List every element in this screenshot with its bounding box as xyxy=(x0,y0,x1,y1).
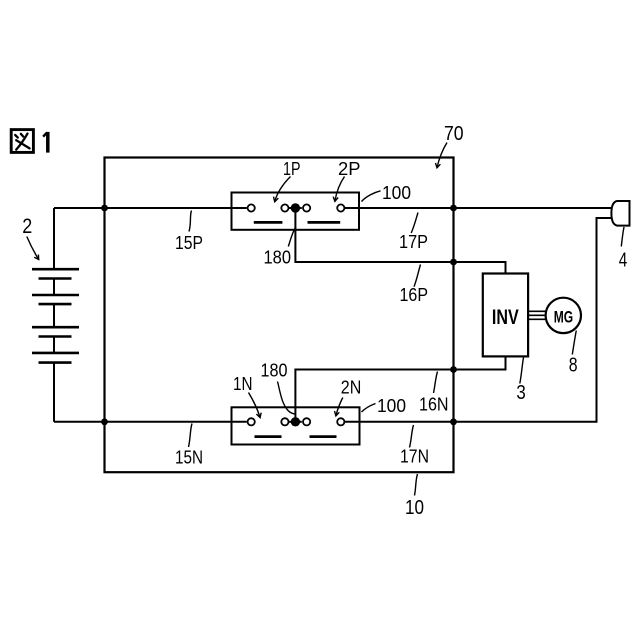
contact bar (top relay, left) xyxy=(254,221,283,224)
battery 2 xyxy=(32,208,79,422)
wire 180 (drop to bottom relay) and wire 16N to INV xyxy=(295,356,505,421)
label 100 (top relay) with leader xyxy=(362,183,412,203)
svg-text:100: 100 xyxy=(382,183,411,203)
label 180 (bottom) with leader xyxy=(261,361,295,414)
inverter U: INV box 3 xyxy=(483,274,528,357)
label 10 with leader xyxy=(405,474,424,519)
label 17N with leader xyxy=(400,425,429,467)
contact bar (top relay, right) xyxy=(308,221,341,224)
svg-text:180: 180 xyxy=(264,248,292,268)
svg-text:2: 2 xyxy=(22,214,32,238)
svg-text:100: 100 xyxy=(377,396,406,416)
label 4 with leader xyxy=(619,227,628,272)
junction node (bus, bottom rail) xyxy=(450,418,457,425)
svg-text:10: 10 xyxy=(405,497,424,519)
junction node (bus, wire 16P) xyxy=(450,259,457,266)
contact terminal 2P right xyxy=(337,204,344,211)
label 100 (bottom relay) with leader xyxy=(362,396,407,416)
motor-generator MG 8 xyxy=(546,298,581,333)
svg-text:16N: 16N xyxy=(419,395,449,415)
common node 180 (bottom relay center dot) xyxy=(291,417,300,426)
label 15P with leader xyxy=(175,211,203,254)
label 15N with leader xyxy=(175,424,203,468)
junction node (bus, top rail) xyxy=(450,205,457,212)
label 8 with leader xyxy=(569,331,578,377)
3-phase link lines INV to MG xyxy=(528,311,546,319)
wire 180 (drop from top relay) and wire 16P to INV xyxy=(295,210,505,274)
svg-text:MG: MG xyxy=(554,308,573,326)
junction node (left edge, top rail) xyxy=(101,205,108,212)
label 2N with arrow xyxy=(335,378,362,416)
label 16P with leader xyxy=(400,265,429,306)
contact terminal 2P left xyxy=(303,204,310,211)
svg-text:16P: 16P xyxy=(400,285,429,305)
svg-text:1P: 1P xyxy=(283,159,301,179)
wire 15P / 17P (top rail segments) xyxy=(54,207,613,209)
contact terminal 1P left xyxy=(248,204,255,211)
svg-text:17P: 17P xyxy=(399,232,428,252)
wire 15N / 17N (bottom rail, continues right and up to horn 4) xyxy=(54,218,613,422)
svg-text:15P: 15P xyxy=(175,233,203,253)
label 17P with leader xyxy=(399,213,428,253)
label 1P with arrow xyxy=(274,159,301,202)
contact terminal 1N right xyxy=(281,418,288,425)
label 2P with arrow xyxy=(333,159,360,201)
label 70 with arrow xyxy=(436,123,464,168)
svg-text:8: 8 xyxy=(569,355,578,377)
junction node (left edge, bottom rail) xyxy=(101,418,108,425)
svg-text:INV: INV xyxy=(492,306,519,329)
contact bar (bottom relay, left) xyxy=(255,435,282,438)
contact terminal 2N right xyxy=(337,418,344,425)
label 16N with leader xyxy=(419,372,449,415)
figure title 図1 xyxy=(11,130,48,153)
svg-text:2N: 2N xyxy=(341,378,362,398)
contact terminal 2N left xyxy=(303,418,310,425)
svg-text:2P: 2P xyxy=(338,159,361,179)
label 2 with arrow xyxy=(22,214,38,260)
svg-text:1N: 1N xyxy=(233,374,253,394)
relay 100 (top box) xyxy=(232,193,360,230)
enclosure box 70 (outer rectangle, right edge is DC bus) xyxy=(105,158,454,473)
junction node (bus, wire 16N) xyxy=(450,366,457,373)
contact terminal 1P right xyxy=(281,204,288,211)
common node 180 (top relay center dot) xyxy=(291,203,300,212)
svg-text:70: 70 xyxy=(444,123,464,145)
label 180 (top) with leader xyxy=(264,227,296,268)
auxiliary load horn 4 (D-shaped symbol) xyxy=(611,201,629,226)
svg-text:15N: 15N xyxy=(175,448,203,468)
svg-text:17N: 17N xyxy=(400,447,429,467)
label 3 with leader xyxy=(516,358,525,405)
label 1N with arrow xyxy=(233,374,261,418)
svg-text:4: 4 xyxy=(619,250,628,272)
contact bar (bottom relay, right) xyxy=(310,435,337,438)
relay 100 (bottom box) xyxy=(232,407,360,444)
contact terminal 1N left xyxy=(248,418,255,425)
svg-text:3: 3 xyxy=(516,382,525,404)
svg-text:180: 180 xyxy=(261,361,288,381)
